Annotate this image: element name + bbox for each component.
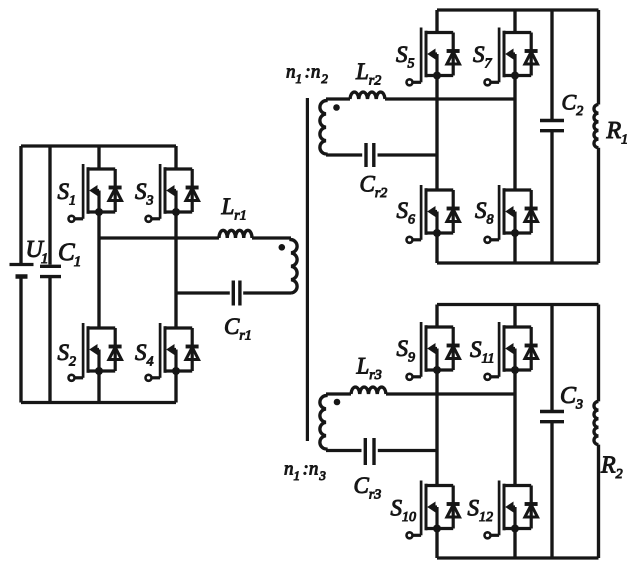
resistor R2 coil [594,401,599,444]
wire leg S9-S10 segments [435,305,438,559]
inductor Lr3 [351,387,386,394]
wire bridge output A to transformer top [99,236,291,239]
transistor S1 [69,164,122,222]
transformer core bar [306,98,309,441]
wire leg S11-S12 segments [513,305,516,559]
wire secondary2 top to bridge [326,97,515,100]
resistor R1 coil [594,105,599,148]
wire left source branch lower [19,278,22,403]
wire C2 branch lower [550,132,553,263]
wire C2 branch upper [550,10,553,120]
wire C3 branch upper [550,305,553,411]
capacitor Cr1 [233,281,240,306]
wire secondary2 bottom to Cr2 [326,153,362,156]
wire bottom rail of primary bridge [21,401,176,404]
wire C3 branch lower [550,423,553,558]
transistor S4 [146,323,199,381]
capacitor Cr3 [365,438,374,465]
wire secondary3 bottom to Cr3 [326,449,362,452]
transistor S8 [485,185,538,243]
wire Cr3 to bridge leg [378,449,437,452]
wire leg S1-S2 segments [97,146,100,403]
wire top rail of secondary bridge 2 [437,8,599,11]
transformer secondary winding 3 [320,394,326,451]
transistor S5 [407,28,460,86]
wire bottom rail of secondary bridge 3 [437,556,599,559]
wire bridge output B to Cr1 [176,291,230,294]
wire leg S7-S8 segments [513,10,516,263]
wire leg S3-S4 segments [174,146,177,403]
wire leg S5-S6 segments [435,10,438,263]
transistor S10 [407,481,460,539]
transistor S6 [407,185,460,243]
wire top rail of secondary bridge 3 [437,303,599,306]
inductor Lr2 [350,92,385,99]
wire top rail of primary bridge [21,144,176,147]
transistor S11 [485,322,538,380]
polarity dot secondary 2 [333,104,340,111]
wire C1 branch upper [48,146,51,265]
transistor S7 [485,28,538,86]
transistor S12 [485,481,538,539]
wire R1 branch upper [597,10,600,105]
capacitor C2 [540,121,564,131]
transformer secondary winding 2 [320,99,326,155]
wire R2 branch upper [597,305,600,402]
wire R1 branch lower [597,148,600,263]
wire C1 branch lower [48,278,51,403]
capacitor C1 [40,266,61,276]
wire secondary3 top to bridge [326,392,515,395]
wire Cr2 to bridge leg [378,153,438,156]
transistor S2 [69,323,122,381]
transistor S3 [146,164,199,222]
polarity dot primary [279,244,286,251]
wire Cr1 to transformer bottom [243,291,291,294]
wire bottom rail of secondary bridge 2 [437,261,599,264]
inductor Lr1 [219,230,252,238]
transistor S9 [407,322,460,380]
polarity dot secondary 3 [334,399,341,406]
wire R2 branch lower [597,445,600,558]
capacitor C3 [540,412,564,422]
battery U1 [10,265,34,277]
capacitor Cr2 [366,143,374,167]
wire left source branch upper [19,146,22,263]
transformer primary winding [291,238,297,293]
